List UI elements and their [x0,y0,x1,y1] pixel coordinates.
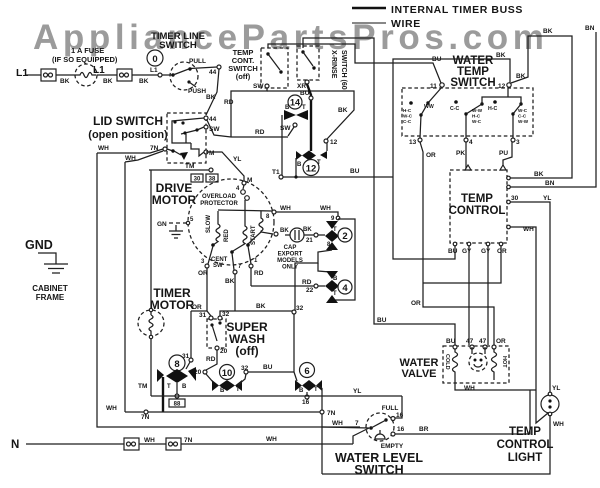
svg-text:21: 21 [306,238,313,244]
water valve box [443,346,509,383]
svg-text:GY: GY [481,248,491,255]
svg-text:3: 3 [516,139,520,146]
temp cont switch contacts [266,52,269,55]
wire BR from EMPTY to valve WH [395,390,530,434]
connector stack at cam 4 [326,271,338,279]
wts section 3 [493,100,497,104]
svg-text:YL: YL [552,385,560,392]
svg-text:L1: L1 [16,67,28,79]
svg-text:PK: PK [456,150,465,157]
svg-text:22: 22 [306,287,314,294]
svg-text:RD: RD [302,279,312,286]
svg-text:10: 10 [222,368,233,379]
svg-text:OR: OR [198,270,208,277]
wire BK fuse to connector [97,74,117,76]
svg-text:PUSH: PUSH [188,88,206,95]
YL rail y=396 [151,395,402,397]
wire TM top to lid switch [150,170,152,309]
svg-text:B: B [333,276,338,282]
svg-text:BR: BR [419,426,429,433]
wts section 2 [454,100,458,104]
svg-text:WH: WH [332,420,343,427]
svg-text:44: 44 [209,69,217,76]
wire M to drive motor (YL) [206,152,244,181]
capacitor C1 (export models) [274,232,278,236]
svg-text:OR: OR [497,248,507,255]
svg-text:W-C: W-C [472,119,482,124]
wire OR temp control to OR net [423,246,501,283]
svg-text:WH: WH [125,155,136,162]
super wash bottom contact 20 [215,346,219,350]
svg-text:2: 2 [342,231,347,242]
timer cam 6 [300,363,315,378]
svg-text:13: 13 [409,139,417,146]
connector pair at cam 10 [212,380,219,391]
svg-text:16: 16 [397,426,405,433]
wire cam6 stem to YL rail [306,392,308,396]
fuse F1 (1 A fuse) [75,64,97,86]
svg-text:TEMP: TEMP [461,193,493,205]
svg-text:WH: WH [553,421,564,428]
svg-text:BK: BK [496,52,506,59]
svg-text:C-C: C-C [403,119,412,124]
svg-text:31: 31 [199,312,207,319]
timer line switch (pull/push) [170,62,198,90]
svg-text:PU: PU [499,150,508,157]
svg-text:14: 14 [290,98,300,108]
svg-text:YL: YL [233,156,241,163]
motor terminal 8 + WH wire [272,210,276,214]
svg-text:1 A FUSE: 1 A FUSE [71,46,104,55]
svg-text:SWITCH: SWITCH [159,40,197,51]
svg-text:N: N [11,439,19,451]
temp control top terminals [465,165,471,170]
svg-text:GY: GY [462,248,472,255]
wire T1 buss rail [279,175,283,179]
temp control right terminals [507,176,511,180]
svg-text:OR: OR [496,338,506,345]
svg-text:BK: BK [103,78,113,85]
svg-text:H-C: H-C [488,106,497,112]
svg-text:SW: SW [280,125,291,132]
svg-text:BK: BK [303,227,312,233]
svg-text:4: 4 [342,283,348,294]
svg-text:B: B [297,162,302,168]
svg-text:7: 7 [355,420,359,427]
svg-text:BU: BU [448,248,458,255]
wire buss y=91 to x-rinse aux [267,91,354,139]
svg-text:BU: BU [300,90,310,97]
valve thermo disc [469,353,487,371]
neutral rail [26,443,353,445]
wire cam8 stem to terminal 88 [176,383,178,395]
svg-text:PULL: PULL [189,58,206,65]
svg-text:SW: SW [209,126,220,133]
svg-text:T: T [302,105,306,111]
wire TM bottom down to YL rail [150,339,152,396]
svg-text:BK: BK [206,94,216,101]
svg-text:6: 6 [304,366,309,377]
timer cam 14 [288,95,302,109]
thick internal timer buss BU vertical [307,84,311,151]
legend: wire sample line [352,22,386,24]
svg-text:BK: BK [543,28,553,35]
contact SW below 14 [293,123,297,127]
drive motor M terminal [242,181,246,185]
svg-text:W-C: W-C [403,114,413,119]
svg-text:12: 12 [498,83,506,90]
svg-text:L1: L1 [150,67,158,74]
temp cont switch box [261,48,288,88]
thick buss from TM connector down [162,377,164,412]
svg-text:BK: BK [280,228,289,234]
motor terminal 7 [230,250,234,254]
connector diamond under cam 8 [166,369,188,383]
x-rinse contacts [301,50,304,53]
svg-text:7N: 7N [327,410,336,417]
svg-text:SW: SW [213,263,223,269]
svg-text:B: B [285,105,290,111]
wire 31 branch down to terminal 31 [190,311,192,358]
wire cam6 right to vertical 322 [317,385,322,388]
svg-text:X-RINSE: X-RINSE [330,50,337,79]
svg-text:SW: SW [253,83,264,90]
overload protector contacts [243,185,244,189]
svg-text:47: 47 [466,338,474,345]
svg-text:XR: XR [297,83,306,90]
svg-text:BK: BK [516,73,526,80]
wire rail x-rinse top to valve BU [303,38,455,345]
svg-text:C-C: C-C [518,114,527,119]
wire RD from motor 1 down [250,268,252,286]
wire L1 feed [26,74,41,76]
WH 7N rail y=412 [125,411,322,413]
wire 30/YL to light [510,202,550,393]
svg-text:WH: WH [266,436,277,443]
svg-text:BU: BU [377,317,387,324]
svg-text:INTERNAL TIMER BUSS: INTERNAL TIMER BUSS [391,4,523,16]
svg-text:B: B [220,388,225,394]
svg-text:OR: OR [426,152,436,159]
svg-text:VALVE: VALVE [401,368,436,380]
wire WH rail 2 vertical [124,162,126,412]
x-rinse switch box [297,46,319,80]
wire OR from motor 3 down [206,268,208,311]
wls EMPTY contact [391,432,395,436]
neutral connector 1 [124,438,139,450]
wire WH lid 7N to second rail [125,151,163,162]
svg-text:CONTROL: CONTROL [497,439,554,451]
svg-text:FULL: FULL [382,405,399,412]
svg-text:12: 12 [306,164,317,175]
terminal boxes 30 38 [191,174,203,182]
wire BN net [510,32,596,187]
timer cam 0 [147,50,163,66]
svg-text:T: T [167,384,171,390]
neutral connector 2 [166,438,181,450]
wts section 1 [409,101,413,105]
wire BU rail y=372 [248,371,294,373]
drive motor housing [188,179,274,265]
connector (disconnect) on L1 [41,69,56,81]
connector (disconnect) 2 on L1 [117,69,132,81]
svg-text:TEMP: TEMP [509,426,541,438]
wire BK down to connector 6 [294,314,297,381]
svg-text:HOT: HOT [501,356,507,368]
wls bellows [375,434,385,439]
timer cam 2 [338,228,352,242]
svg-text:MOTOR: MOTOR [150,298,195,312]
svg-text:ONLY: ONLY [282,265,298,271]
lid switch box [167,113,206,163]
svg-text:GN: GN [157,221,167,228]
timer motor [138,310,164,336]
svg-text:(off): (off) [235,344,258,358]
svg-text:SWITCH (60: SWITCH (60 [340,50,347,90]
wire WH to light [510,227,548,423]
svg-text:32: 32 [296,305,304,312]
svg-text:YL: YL [543,195,551,202]
svg-text:16: 16 [302,399,310,406]
timer cam 8 [169,355,185,371]
svg-text:WH: WH [280,205,291,212]
timer cam 4 [338,280,352,294]
svg-text:L1: L1 [93,65,105,76]
svg-text:W-W: W-W [518,119,529,124]
svg-text:(off): (off) [236,72,251,81]
svg-text:BK: BK [256,303,266,310]
svg-text:OVERLOAD: OVERLOAD [202,194,237,200]
svg-text:YL: YL [353,388,361,395]
svg-text:W-C: W-C [518,108,528,113]
super wash switch box [207,319,226,348]
svg-text:B: B [299,388,304,394]
connector stack at cam 2 [326,221,338,229]
svg-text:LIGHT: LIGHT [508,452,543,464]
connector block frame (cams 2/4) [332,219,355,300]
svg-text:BU: BU [263,364,273,371]
lid switch contacts 44/SW/M/7N [204,116,208,120]
svg-text:C-C: C-C [450,106,459,112]
svg-text:20: 20 [220,348,228,355]
svg-text:7N: 7N [141,414,150,421]
wire OR horizontal + branch to 31 [191,310,207,312]
svg-text:PROTECTOR: PROTECTOR [200,201,238,207]
wire from 14-B down to T1 rail [281,115,283,176]
svg-text:BK: BK [139,78,149,85]
motor terminal 1 [246,243,250,247]
wire GY 2 to valve [487,246,489,345]
svg-text:CABINET: CABINET [32,284,68,293]
svg-text:30: 30 [194,177,201,183]
wire SW to RD vertical [231,88,267,137]
temp control bottom terminals [453,242,457,246]
wire left WH rail vertical + bottom [97,153,360,427]
svg-text:(open position): (open position) [88,129,168,141]
wire light to bottom rail [322,415,550,474]
svg-text:RD: RD [255,129,265,136]
temp control light bulb [541,395,559,413]
svg-text:BU: BU [446,338,456,345]
svg-text:EMPTY: EMPTY [381,443,404,450]
svg-text:TM: TM [185,163,194,170]
water temp switch box [402,88,533,136]
svg-text:GND: GND [25,238,53,252]
contact 12 + feed bridge [507,83,511,87]
lid switch blades [172,118,204,143]
wire BK rail y=311 [220,311,293,316]
wire BK net top right [509,36,572,178]
svg-text:RD: RD [254,270,264,277]
wire RD to cam4 connector [251,285,314,287]
main vertical x=322 [321,388,323,474]
wire WH lid 7N to left rail [97,149,163,153]
svg-text:30: 30 [511,195,519,202]
legend: internal timer buss sample line [352,7,386,10]
svg-text:M: M [209,150,214,157]
svg-text:COLD: COLD [444,354,450,370]
svg-text:OR: OR [411,300,421,307]
wire rail to temp cont + water temp 11 [268,44,441,83]
svg-text:TM: TM [138,383,147,390]
motor internal bus [218,210,272,211]
svg-text:12: 12 [330,139,338,146]
svg-text:T: T [314,387,318,393]
super wash contacts 31/32 [209,316,213,320]
svg-text:BK: BK [338,107,348,114]
motor terminal 3 [211,243,215,247]
svg-text:0: 0 [152,54,157,65]
wire TM from lid switch [149,169,209,171]
timer cam 10 [220,365,235,380]
svg-text:SWITCH: SWITCH [354,463,403,477]
svg-text:WH: WH [523,226,534,233]
x-rinse aux contact 12 [324,139,328,143]
svg-text:WH: WH [320,205,331,212]
svg-text:WH: WH [144,437,155,444]
svg-text:WH: WH [98,145,109,152]
svg-text:RED: RED [224,229,230,242]
wire WH to pivot [322,427,369,428]
temp control box [450,170,507,243]
svg-text:47: 47 [479,338,487,345]
wire PU from 3 to temp control [503,142,512,169]
svg-text:11: 11 [430,83,437,90]
svg-text:SLOW: SLOW [206,215,212,233]
wire WH valve common [455,380,536,390]
svg-text:BK: BK [534,171,544,178]
svg-text:4: 4 [469,139,473,146]
svg-text:BN: BN [585,25,595,32]
contact 11 [440,83,444,87]
svg-text:SWITCH: SWITCH [450,77,495,89]
svg-text:7N: 7N [184,437,193,444]
wls pivot 7 [369,426,373,430]
svg-text:BK: BK [225,278,235,285]
svg-text:WH: WH [464,385,475,392]
svg-text:START: START [251,225,257,245]
svg-text:(IF SO EQUIPPED): (IF SO EQUIPPED) [52,55,118,64]
wire bracket cam2 to BK net [295,250,332,311]
svg-text:WIRE: WIRE [391,18,421,30]
svg-text:T: T [333,291,337,297]
svg-text:H-C: H-C [472,114,481,119]
svg-text:CONTROL: CONTROL [449,205,506,217]
svg-text:T: T [236,387,240,393]
wire YL rail down to FULL [395,396,402,418]
svg-text:H-C: H-C [403,108,412,113]
wire BK feed left (y=59) [393,59,510,259]
svg-text:B: B [182,384,187,390]
timer cam 12 [303,160,319,176]
wire PK from 4 to temp control [465,142,467,169]
svg-text:OR: OR [192,304,202,311]
wire BK from motor 7 down [234,274,236,311]
svg-text:BN: BN [545,180,555,187]
wire cam10 to BU rail [238,374,246,385]
wire OR from 13 down [420,142,494,345]
wire BK to timer line switch [132,74,158,76]
svg-text:32: 32 [241,365,249,372]
svg-text:LID SWITCH: LID SWITCH [93,114,163,128]
svg-text:BU: BU [350,168,360,175]
wire BK to fuse [56,74,76,76]
water level switch body [366,413,394,441]
wire GY 1 to valve [468,246,470,345]
svg-text:BK: BK [60,78,70,85]
svg-text:CAP: CAP [284,245,297,251]
svg-text:88: 88 [174,402,181,408]
svg-text:M: M [247,177,252,184]
svg-text:44: 44 [209,116,217,123]
svg-text:RD: RD [206,356,216,363]
wire BK from switch 44 down to lid switch [206,69,219,115]
connector pair at cam 6 [295,380,302,391]
connector diamond 12 [296,151,302,160]
svg-text:T1: T1 [272,169,280,176]
svg-text:RD: RD [224,99,234,106]
svg-text:32: 32 [222,311,230,318]
wire RD horizontal to bowtie 14 [206,118,288,137]
svg-text:EXPORT: EXPORT [278,252,303,258]
wire RD from 20 down [206,350,217,370]
svg-text:WH: WH [106,405,117,412]
valve terminals [453,345,457,349]
svg-text:AppliancePartsPros.com: AppliancePartsPros.com [33,18,549,57]
svg-text:MOTOR: MOTOR [152,193,197,207]
svg-text:8: 8 [174,359,179,370]
svg-text:FRAME: FRAME [36,293,65,302]
